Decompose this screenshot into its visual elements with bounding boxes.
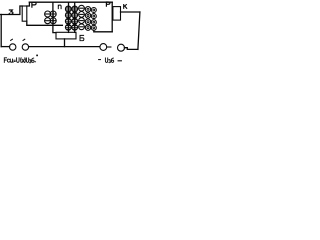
cell B1-3 xyxy=(65,18,71,24)
cell A2 negative xyxy=(45,18,51,24)
label node 3 (charger input) xyxy=(9,10,13,14)
wire bottom left xyxy=(1,46,9,48)
cell A1 positive xyxy=(50,11,56,17)
label n xyxy=(58,5,61,9)
cell B2-2 xyxy=(72,12,78,18)
right bus vertical xyxy=(111,2,113,32)
bus chain B2 xyxy=(74,2,76,32)
terminal T2 xyxy=(22,44,28,50)
wire fuse P1 to top rail xyxy=(27,2,30,6)
speck xyxy=(36,55,38,57)
stub between T3 and T4 xyxy=(107,46,111,48)
wire left edge vertical xyxy=(0,15,2,47)
wire switch S1 down to bottom rail xyxy=(64,39,66,47)
label K xyxy=(124,5,127,9)
cell B2-4 xyxy=(72,24,78,30)
wire fuse P1 output down and right xyxy=(27,21,63,25)
tick mark above T2 xyxy=(23,39,25,40)
bus for cell group A xyxy=(53,2,56,32)
cell A1 negative xyxy=(45,11,51,17)
wire bottom middle xyxy=(29,46,100,48)
polarity dash left of T3 xyxy=(99,59,101,61)
wire bottom right jog xyxy=(124,48,137,50)
label battery B xyxy=(80,35,84,40)
terminal T1 xyxy=(10,44,16,50)
wire input from node 3 xyxy=(1,6,23,15)
cell B2-3 xyxy=(72,18,78,24)
cell B1-1 xyxy=(65,6,71,12)
fuse P2 xyxy=(113,7,121,21)
bus chain B1 xyxy=(68,2,70,32)
label P1 xyxy=(32,2,36,7)
socket column C2 xyxy=(85,7,90,12)
cell A2 positive xyxy=(50,18,56,24)
polarity dash under T4 xyxy=(118,60,121,62)
switch box S1 xyxy=(56,32,76,39)
terminal T4 xyxy=(118,44,125,51)
wire right edge vertical xyxy=(138,12,140,49)
wire socket block to right bus xyxy=(94,30,112,32)
cell B2-1 xyxy=(72,6,78,12)
cell B1-4 xyxy=(65,24,71,30)
tick mark above T1 xyxy=(11,39,13,40)
terminal T3 xyxy=(100,44,107,51)
voltage label Uz6 xyxy=(105,58,113,63)
fuse P1 xyxy=(22,6,27,21)
socket column C1 xyxy=(79,5,85,11)
top rail positive bus xyxy=(29,1,112,3)
cell B1-2 xyxy=(65,12,71,18)
wire fuse P2 to load K xyxy=(121,11,140,13)
label P2 xyxy=(106,2,110,6)
formula label Fcu=U(x)Uz6 xyxy=(4,58,35,63)
socket column C3 xyxy=(91,8,96,13)
